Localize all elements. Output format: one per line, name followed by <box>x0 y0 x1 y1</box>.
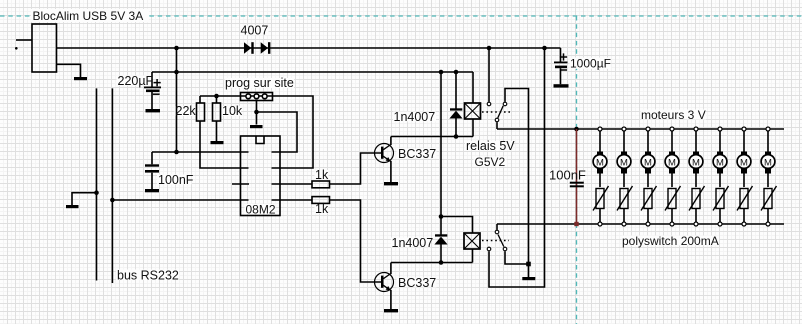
node bus1 ground <box>94 190 99 195</box>
wire vertical x=176 <box>176 48 178 152</box>
ground Q1 <box>384 182 398 185</box>
resistor R3 1k body <box>312 181 330 188</box>
resistor R2 10k body <box>213 103 221 121</box>
transistor Q2 emitter arrow <box>386 286 391 290</box>
transistor Q1 collector <box>383 145 390 150</box>
node D3 anode <box>454 134 459 139</box>
svg-text:4007: 4007 <box>241 24 269 38</box>
transistor Q1 circle <box>375 144 394 163</box>
capacitor C2 plate2 <box>145 170 159 173</box>
node motor rail 100nF <box>574 127 579 132</box>
label background masks <box>116 26 719 288</box>
svg-text:BC337: BC337 <box>398 147 436 161</box>
wire motor M1 top lead <box>599 131 601 152</box>
transistor Q2 emitter <box>383 285 390 290</box>
svg-text:1k: 1k <box>315 168 329 182</box>
wire power block ground pin <box>57 64 81 77</box>
diode D4 1n4007 bar <box>435 234 447 236</box>
svg-text:1k: 1k <box>315 202 329 216</box>
connector J1 prog header body <box>241 93 273 101</box>
svg-text:1n4007: 1n4007 <box>394 110 436 124</box>
wire header pin2 to IC pin R1 <box>257 112 298 152</box>
page boundary dashed line horizontal <box>0 15 802 17</box>
motor M2 and polyswitch F2 unit <box>617 127 633 226</box>
node D4 anode <box>439 260 444 265</box>
wire 22k bottom to IC pin2 <box>200 121 249 168</box>
motor M6 and polyswitch F6 unit <box>713 127 729 226</box>
wire IC pin R4 to 1k <box>272 199 313 201</box>
diode D4 triangle <box>434 237 447 245</box>
wire bus line 1 <box>96 88 98 280</box>
relay RL1 contact circle <box>495 118 499 122</box>
svg-text:BC337: BC337 <box>398 276 436 290</box>
motor M4 and polyswitch F4 unit <box>665 127 681 226</box>
wire +5V rail y=72 <box>152 71 473 73</box>
ground C3 <box>554 84 569 87</box>
node relay2 coil top <box>439 214 444 219</box>
relay RL1 armature <box>498 106 503 118</box>
power block rectangle <box>32 24 57 72</box>
relay RL1 contact to motor rail <box>496 122 498 129</box>
transistor Q2 base bar <box>381 276 384 288</box>
relay RL2 coil body <box>464 233 480 249</box>
IC U1 pin3 stub <box>232 183 249 185</box>
svg-text:1n4007: 1n4007 <box>392 236 434 250</box>
capacitor C3 bottom lead <box>560 68 562 84</box>
wire bus2 to IC pin4 <box>112 199 248 201</box>
capacitor C1 plate1 <box>144 87 161 89</box>
node x176 y72 <box>174 70 179 75</box>
diode D2 bar <box>268 42 270 54</box>
svg-text:relais 5V: relais 5V <box>466 139 515 153</box>
ground relay2 <box>522 277 535 280</box>
wire motor M1 to polyswitch <box>599 174 601 188</box>
IC U1 08M2 body <box>241 136 281 216</box>
node x456 y72 <box>454 70 459 75</box>
relay RL1 pole circle <box>487 102 491 106</box>
wire Q1 collector row <box>391 136 473 138</box>
svg-text:100nF: 100nF <box>158 173 194 187</box>
diode D3 triangle <box>449 111 462 119</box>
wire 1k to Q1 base <box>330 153 382 184</box>
page boundary dashed line vertical <box>576 16 578 324</box>
relay RL2 armature <box>498 235 504 247</box>
relay RL2 throw to ground <box>505 251 529 264</box>
svg-text:08M2: 08M2 <box>246 203 276 217</box>
transistor Q1 emitter arrow <box>386 157 391 161</box>
svg-text:10k: 10k <box>222 104 243 118</box>
plus minus signs <box>153 53 567 94</box>
relay RL2 actuator dotted link <box>482 240 509 242</box>
wire x=441 +5 to relay2 <box>440 72 442 235</box>
capacitor C3 1000uF top lead <box>560 48 562 62</box>
ground power block <box>74 77 87 80</box>
node return rail 100nF square <box>574 222 578 226</box>
relay RL2 pole circle <box>495 230 499 234</box>
node header pin2 <box>254 110 259 115</box>
motor M1 bottom terminal <box>597 169 603 174</box>
capacitor C4 100nF plate2 <box>570 185 584 187</box>
ground Q2 <box>384 309 398 312</box>
capacitor C2 100nF top lead <box>151 152 153 164</box>
wire input to power block <box>16 39 32 41</box>
wire +5V rail y=48 <box>57 47 561 49</box>
C3 plus sign <box>560 53 567 60</box>
transistor Q1 emitter <box>383 156 390 161</box>
header pin circles <box>246 94 267 99</box>
svg-text:M: M <box>596 157 604 168</box>
wire motor return rail <box>497 223 784 225</box>
wire bus line 2 <box>111 88 113 283</box>
motor M8 and polyswitch F8 unit <box>761 127 777 226</box>
C1 plus sign <box>154 79 161 86</box>
diode D3 lower lead <box>455 119 457 137</box>
ground C2 <box>145 189 159 192</box>
capacitor C1 220uF bottom lead <box>151 92 153 109</box>
wire +5 row to IC pin1 <box>152 151 249 153</box>
node x441 y72 <box>439 70 444 75</box>
motor M5 and polyswitch F5 unit <box>689 127 705 226</box>
relay RL2 throw to +5 <box>489 48 545 287</box>
wire motor rail top <box>497 128 784 130</box>
capacitor C3 plate2 thick <box>555 66 567 69</box>
relay RL2 coil top wire <box>441 217 473 234</box>
node 10k top <box>214 94 219 99</box>
svg-text:1000µF: 1000µF <box>570 57 611 71</box>
node stray dot <box>15 47 18 50</box>
capacitor C1 plate2 thick <box>146 90 160 93</box>
transistor Q2 collector <box>383 274 390 279</box>
svg-text:moteurs 3 V: moteurs 3 V <box>641 108 706 122</box>
wire header pin2 down <box>256 101 258 125</box>
relay RL1 pole lead <box>488 48 490 102</box>
capacitor C2 100nF bottom lead <box>151 173 153 189</box>
thick bars: grounds, plates, motor nubs <box>15 42 579 312</box>
node motor M1 rail taps <box>598 127 602 131</box>
capacitor C1 220uF top lead <box>151 72 153 87</box>
label BlocAlim <box>31 9 149 22</box>
svg-text:G5V2: G5V2 <box>475 155 506 169</box>
connector J1 pin2 circle <box>254 94 259 99</box>
C1 minus sign <box>153 93 160 95</box>
wire 10k bottom lead <box>216 121 218 141</box>
node x489 y48 <box>487 46 492 51</box>
wire header pin3 to x=313 <box>272 96 314 168</box>
motor M1 top terminal <box>597 152 603 157</box>
C3 minus sign <box>560 69 567 71</box>
capacitor C2 plate1 <box>145 164 159 166</box>
svg-text:100nF: 100nF <box>549 168 586 183</box>
svg-text:220µF: 220µF <box>118 74 154 88</box>
relay RL1 coil bottom lead <box>472 119 474 137</box>
resistor R2 10k top lead <box>216 96 218 103</box>
relay RL2 throw circle right <box>503 247 507 251</box>
node x176 y48 <box>174 46 179 51</box>
wire 1k to Q2 base <box>330 200 382 282</box>
relay contact circles <box>487 102 507 251</box>
capacitor C4 100nF plate1 <box>570 182 584 184</box>
wire bus1 to ground <box>72 193 97 205</box>
node bus2 pin4 <box>110 198 115 203</box>
relay RL2 throw circle left <box>487 247 491 251</box>
transistor Q1 base bar <box>381 147 384 159</box>
svg-text:polyswitch 200mA: polyswitch 200mA <box>622 234 719 248</box>
diode D1 4007 triangle <box>244 42 251 54</box>
diode D2 4007 triangle <box>261 42 268 54</box>
wire Q2 collector row <box>391 262 473 264</box>
motors and polyswitches <box>593 127 777 226</box>
svg-text:22k: 22k <box>176 104 197 118</box>
relay RL1 coil body <box>465 103 481 119</box>
node x544 y48 <box>542 46 547 51</box>
connector J1 pin1 circle <box>246 94 251 99</box>
ground 10k <box>211 141 224 144</box>
wire prog header rail y=96 <box>200 95 273 97</box>
diode D1 bar <box>251 42 253 54</box>
IC U1 notch <box>256 136 264 144</box>
motor M1 body <box>593 155 607 169</box>
svg-text:prog sur site: prog sur site <box>225 76 294 90</box>
ground C1 <box>146 109 161 112</box>
node relay2 ground <box>526 262 531 267</box>
polyswitch F1 body <box>596 189 604 209</box>
relay RL2 coil bottom lead <box>472 249 474 263</box>
diode D4 lower lead <box>440 244 442 262</box>
resistor R4 1k body <box>312 197 330 204</box>
resistor R1 22k top lead <box>199 96 201 103</box>
relay RL1 throw circle <box>503 102 507 106</box>
motor M3 and polyswitch F3 unit <box>641 127 657 226</box>
transistor Q2 circle <box>375 273 394 292</box>
motor M7 and polyswitch F7 unit <box>737 127 753 226</box>
resistor R1 22k body <box>197 103 205 121</box>
diode D3 1n4007 bar <box>450 108 462 110</box>
svg-text:bus RS232: bus RS232 <box>117 269 179 283</box>
capacitor C3 plate1 <box>554 62 568 64</box>
connector J1 pin3 circle <box>262 94 267 99</box>
relay RL1 throw lead to relay2 <box>505 89 529 278</box>
relay RL2 pole lead <box>496 224 498 230</box>
relay RL1 coil top lead <box>472 72 474 103</box>
wire polyswitch F1 bottom lead <box>599 208 601 222</box>
ground bus1 <box>66 205 79 208</box>
node x176 y152 <box>174 150 179 155</box>
ground header pin2 <box>250 125 263 128</box>
diode D3 1n4007 upper lead <box>455 72 457 109</box>
wire IC pin R3 to 1k <box>272 183 313 185</box>
relay RL1 actuator dotted link <box>482 111 511 113</box>
100nF motor cap dark red wire <box>576 129 578 224</box>
svg-text:BlocAlim USB 5V 3A: BlocAlim USB 5V 3A <box>33 9 144 23</box>
